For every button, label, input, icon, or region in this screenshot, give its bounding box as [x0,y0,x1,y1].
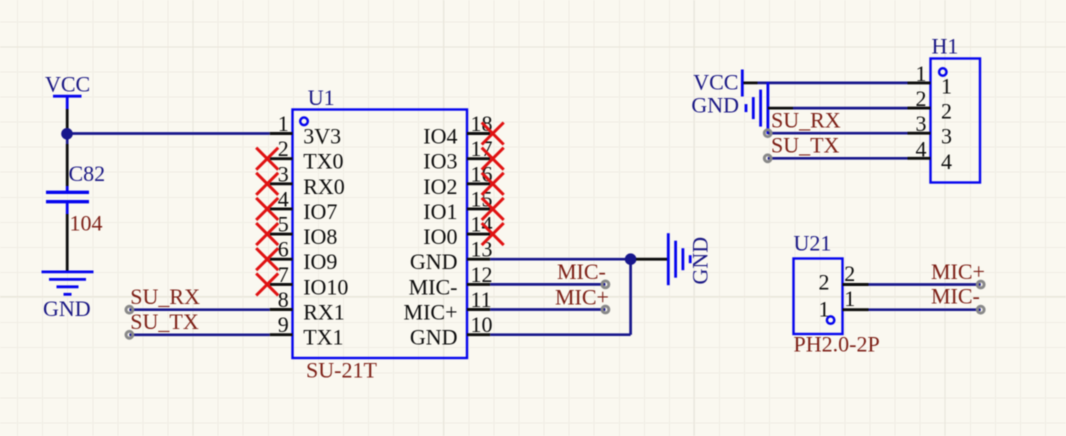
terminal ring MIC+ (middle) [602,306,609,313]
svg-text:1: 1 [278,111,289,136]
svg-text:VCC: VCC [693,70,738,95]
wire SU_RX to H1 pin 3 [768,132,908,135]
wire GND to H1 pin 2 [768,107,793,110]
U1 pin 3 (RX0) [270,161,345,199]
svg-text:3: 3 [916,111,927,136]
no-ERC marker on U1 pin 15 [482,198,504,220]
wire U21 pin 2 to MIC+ [869,283,981,286]
wire MIC+ from U1 pin 11 [490,308,605,311]
U1 pin 8 (RX1) [270,287,345,325]
svg-text:1: 1 [844,286,855,311]
terminal ring SU_RX (left) [126,306,133,313]
no-ERC marker on U1 pin 3 [256,173,278,195]
svg-text:RX0: RX0 [303,174,345,199]
svg-text:U1: U1 [308,85,335,110]
svg-text:8: 8 [278,287,289,312]
svg-text:IO4: IO4 [423,124,457,149]
svg-text:4: 4 [941,149,952,174]
svg-text:7: 7 [278,262,289,287]
no-ERC marker on U1 pin 14 [482,223,504,245]
svg-text:MIC+: MIC+ [555,284,609,309]
svg-text:104: 104 [70,211,103,236]
svg-text:MIC-: MIC- [409,274,458,299]
H1 pin 2 [908,86,953,124]
junction node VCC [61,128,73,144]
svg-text:C82: C82 [69,161,106,186]
connector H1 body [931,59,981,183]
svg-text:IO1: IO1 [423,199,457,224]
U1 pin 6 (IO9) [270,237,338,275]
no-ERC marker on U1 pin 18 [482,123,504,145]
IC U1 body [293,110,468,359]
wire junction to ground (right) [636,258,668,261]
svg-text:3: 3 [941,124,952,149]
terminal ring MIC- (right) [977,306,984,313]
svg-text:IO9: IO9 [303,249,337,274]
svg-text:MIC+: MIC+ [404,300,458,325]
svg-text:MIC-: MIC- [557,259,606,284]
wire SU_TX to U1 pin 9 [129,333,269,336]
U1 pin 11 (MIC+) [404,287,492,325]
svg-text:TX0: TX0 [303,149,343,174]
no-ERC marker on U1 pin 17 [482,148,504,170]
svg-text:GND: GND [410,249,458,274]
svg-text:4: 4 [916,136,927,161]
wire SU_TX to H1 pin 4 [768,157,908,160]
no-ERC marker on U1 pin 2 [256,148,278,170]
svg-text:H1: H1 [932,34,959,59]
svg-text:12: 12 [471,262,493,287]
svg-text:13: 13 [471,237,493,262]
U21 pin 1 [819,286,869,321]
svg-text:U21: U21 [794,231,832,256]
capacitor C82 [46,186,89,214]
svg-text:VCC: VCC [45,72,90,97]
U21 pin 2 [819,261,869,295]
power port VCC (right) [693,70,742,97]
svg-text:PH2.0-2P: PH2.0-2P [794,332,880,357]
U1 pin 5 (IO8) [270,212,338,250]
svg-text:6: 6 [278,237,289,262]
svg-text:GND: GND [688,237,713,285]
power port GND (right of VCC) [691,82,768,134]
svg-text:5: 5 [278,212,289,237]
U1 pin 9 (TX1) [270,312,344,350]
U1 pin 13 (GND) [410,237,493,275]
U1 pin 2 (TX0) [270,136,344,174]
U1 pin 4 (IO7) [270,186,338,224]
svg-text:2: 2 [819,270,830,295]
terminal ring MIC+ (right) [977,281,984,288]
wire junction to capacitor C82 [66,144,69,186]
wire VCC junction to U1 pin 1 [67,132,270,135]
no-ERC marker on U1 pin 6 [256,248,278,270]
svg-text:IO8: IO8 [303,224,337,249]
U1 pin 10 (GND) [410,312,493,350]
svg-text:1: 1 [819,297,830,322]
svg-text:10: 10 [471,312,493,337]
svg-text:2: 2 [278,136,289,161]
terminal ring MIC- (middle) [602,281,609,288]
junction node GND (right) [625,253,637,265]
svg-text:11: 11 [471,287,492,312]
wire VCC to H1 pin 1 [744,82,758,85]
svg-text:3V3: 3V3 [303,124,341,149]
H1 pin 3 [908,111,953,149]
no-ERC marker on U1 pin 7 [256,273,278,295]
svg-text:GND: GND [410,325,458,350]
U1 pin 14 (IO0) [423,212,492,250]
svg-text:MIC-: MIC- [931,283,980,308]
svg-text:9: 9 [278,312,289,337]
U1 pin 16 (IO2) [423,161,492,199]
wire C82 to ground [66,214,69,271]
wire U21 pin 1 to MIC- [869,308,981,311]
svg-text:MIC+: MIC+ [931,259,985,284]
svg-text:SU_TX: SU_TX [771,133,840,158]
U1 pin 12 (MIC-) [409,262,493,300]
wire SU_RX to U1 pin 8 [129,308,269,311]
svg-text:SU_RX: SU_RX [130,284,200,309]
U1 pin 1 (3V3) [270,111,341,149]
svg-text:TX1: TX1 [303,325,343,350]
no-ERC marker on U1 pin 5 [256,223,278,245]
svg-text:2: 2 [941,99,952,124]
ground GND (left) [42,272,94,321]
terminal ring SU_TX (right) [764,155,771,162]
svg-text:RX1: RX1 [303,300,345,325]
svg-text:1: 1 [941,73,952,98]
no-ERC marker on U1 pin 4 [256,198,278,220]
svg-text:2: 2 [916,86,927,111]
svg-text:3: 3 [278,161,289,186]
svg-text:2: 2 [844,261,855,286]
ground GND (right, rotated) [668,233,712,285]
H1 pin 4 [908,136,953,174]
svg-text:GND: GND [43,296,91,321]
svg-text:SU_RX: SU_RX [771,108,841,133]
connector U21 body [794,259,843,335]
wire VCC stem to junction [66,109,69,130]
wire MIC- from U1 pin 12 [490,283,605,286]
svg-text:4: 4 [278,186,289,211]
power port VCC (left) [45,72,90,110]
U1 pin 15 (IO1) [423,186,492,224]
svg-text:GND: GND [691,93,739,118]
no-ERC marker on U1 pin 16 [482,173,504,195]
H1 pin 1 [908,61,953,99]
svg-text:IO10: IO10 [303,274,348,299]
wire U1 pin 13 to junction [490,258,630,261]
svg-text:IO2: IO2 [423,174,457,199]
svg-text:SU_TX: SU_TX [130,309,199,334]
wire junction down to U1 pin 10 [629,259,632,335]
svg-text:IO0: IO0 [423,224,457,249]
terminal ring SU_RX (right) [764,130,771,137]
U1 pin 17 (IO3) [423,136,492,174]
svg-text:IO3: IO3 [423,149,457,174]
terminal ring SU_TX (left) [126,331,133,338]
U1 pin 7 (IO10) [270,262,349,300]
svg-text:SU-21T: SU-21T [306,358,377,383]
svg-text:1: 1 [916,61,927,86]
U1 pin 18 (IO4) [423,111,492,149]
svg-text:IO7: IO7 [303,199,337,224]
